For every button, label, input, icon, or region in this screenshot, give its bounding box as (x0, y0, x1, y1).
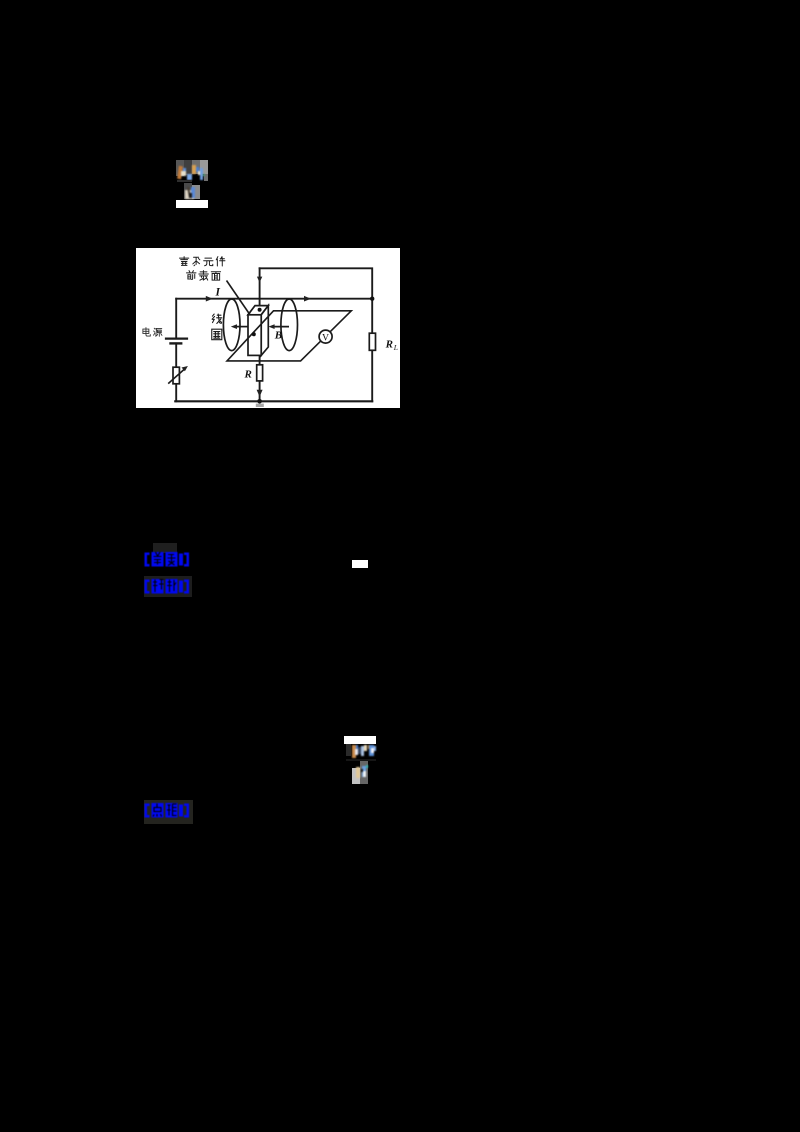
battery long plate (166, 338, 187, 340)
wire: vertical into hall box (259, 268, 261, 310)
svg-text:R: R (244, 369, 252, 381)
wire: bottom horizontal (175, 400, 372, 402)
blue label 2 【解析】 (143, 577, 195, 596)
dot on hall box top face (258, 308, 262, 312)
rheostat (variable resistor) (173, 367, 179, 384)
wire: battery to rheostat (175, 343, 177, 367)
parallelogram plane (227, 311, 351, 361)
coil left ellipse (223, 299, 240, 351)
resistor R (below hall box) (259, 355, 261, 364)
voltmeter V on plane edge (319, 330, 332, 343)
faint block behind label 3 (144, 800, 193, 824)
wire: right vertical upper (371, 299, 373, 334)
label 电源 (vector strokes) (143, 328, 162, 337)
blue label 1 【答案】 (143, 550, 195, 569)
label 线圈 (vector strokes) (212, 314, 222, 340)
svg-text:L: L (393, 343, 398, 352)
resistor RL (right branch) (369, 333, 375, 350)
formula image 2 (JPEG-artifact fraction) (0, 0, 1, 1)
wire: right vertical lower (371, 350, 373, 401)
junction dot right top (370, 297, 374, 301)
faint block behind label 2 (144, 576, 192, 597)
svg-text:I: I (215, 287, 221, 299)
hall element box top face (248, 306, 268, 315)
svg-text:V: V (322, 333, 329, 343)
battery short plate (171, 342, 182, 344)
arrow down above bottom wire (257, 390, 263, 397)
coil right ellipse (281, 299, 298, 351)
arrow on vertical hall wire (down) (257, 277, 262, 283)
formula image 1 (JPEG-artifact fraction) (0, 0, 1, 1)
pointer line from label to box (227, 281, 250, 315)
dot on hall box front face (252, 332, 256, 336)
wire: inner top (hall output) (260, 268, 373, 298)
wire: rheostat to bottom (175, 384, 177, 402)
arrow on top wire left (206, 296, 213, 302)
B field arrow right (272, 326, 290, 328)
junction dot bottom (257, 399, 262, 404)
white dash (352, 560, 368, 568)
blue label 3 【点睛】 (143, 801, 195, 820)
faint block above label 1 (153, 543, 177, 553)
hall element box right face (261, 306, 268, 356)
smudge below junction (256, 404, 264, 407)
svg-text:B: B (274, 330, 282, 342)
label 霍尔元件 (vector strokes) (179, 257, 225, 281)
wire: top horizontal with current I (176, 298, 372, 300)
B field arrow left (234, 326, 248, 328)
svg-text:R: R (385, 339, 393, 351)
arrow on top wire mid (304, 296, 311, 302)
hall element box front face (248, 315, 261, 356)
wire: left vertical top segment (175, 299, 177, 338)
circuit diagram panel (136, 248, 400, 408)
